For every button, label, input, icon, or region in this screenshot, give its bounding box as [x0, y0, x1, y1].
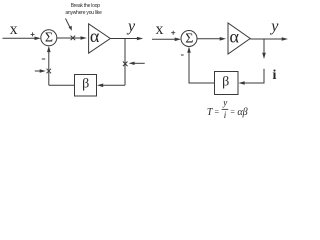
- plus sign at right summer: [171, 31, 175, 35]
- svg-text:α: α: [90, 26, 100, 46]
- feedback block B2 (right beta): [215, 72, 239, 95]
- svg-text:x: x: [156, 21, 164, 38]
- annotation text "Break the loop / anywhere you like": [65, 3, 102, 16]
- wire input x to summer (right): [152, 38, 177, 40]
- wire input x to summer (left): [3, 37, 37, 39]
- svg-text:Σ: Σ: [45, 30, 53, 45]
- wire summer to amplifier (left): [57, 37, 83, 39]
- break mark X1 on forward wire: [71, 36, 76, 41]
- svg-text:y: y: [222, 97, 227, 107]
- svg-text:β: β: [82, 76, 89, 91]
- svg-text:=: =: [230, 107, 235, 116]
- wire beta to summer (right): [189, 51, 215, 84]
- svg-text:α: α: [229, 27, 239, 47]
- wire beta to left vertical (left): [49, 84, 75, 86]
- op-amp A1 (left alpha triangle): [89, 24, 111, 53]
- break mark X3 on left feedback segment: [47, 69, 52, 74]
- wire output down with break arrow (right): [263, 39, 265, 55]
- svg-text:y: y: [269, 18, 279, 35]
- svg-text:Break the loop: Break the loop: [71, 3, 101, 9]
- svg-text:y: y: [126, 18, 136, 35]
- wire amplifier to output y (right): [250, 38, 284, 40]
- annotation arrow to break mark X2: [133, 62, 145, 64]
- wire output node down (left feedback right segment): [124, 39, 126, 86]
- minus sign at right summer: [181, 54, 184, 56]
- svg-text:x: x: [10, 21, 18, 38]
- plus sign at left summer: [31, 32, 35, 36]
- svg-text:anywhere you like: anywhere you like: [65, 10, 102, 16]
- annotation arrow to break mark X1: [66, 19, 71, 28]
- minus sign at left summer: [42, 58, 45, 60]
- wire summer to amplifier (right): [197, 38, 222, 40]
- annotation arrow to break mark X3: [35, 70, 42, 72]
- break mark X2 on right feedback segment: [123, 62, 128, 67]
- feedback block B1 (left beta): [75, 75, 97, 97]
- svg-text:Σ: Σ: [185, 31, 193, 46]
- wire return side of break down to beta (right): [243, 69, 264, 83]
- summing junction S2 (right sigma circle): [181, 31, 197, 47]
- wire amplifier to output y (left): [110, 38, 139, 40]
- formula T = y/i = alpha beta: [207, 97, 248, 120]
- wire feedback up into summer (left): [48, 50, 50, 85]
- svg-text:i: i: [273, 68, 277, 83]
- op-amp A2 (right alpha triangle): [228, 23, 250, 54]
- summing junction S1 (left sigma circle): [41, 30, 57, 46]
- svg-text:=: =: [215, 107, 220, 116]
- svg-text:αβ: αβ: [237, 107, 247, 118]
- wire feedback bottom into beta block (left): [103, 84, 125, 86]
- svg-text:β: β: [222, 75, 229, 90]
